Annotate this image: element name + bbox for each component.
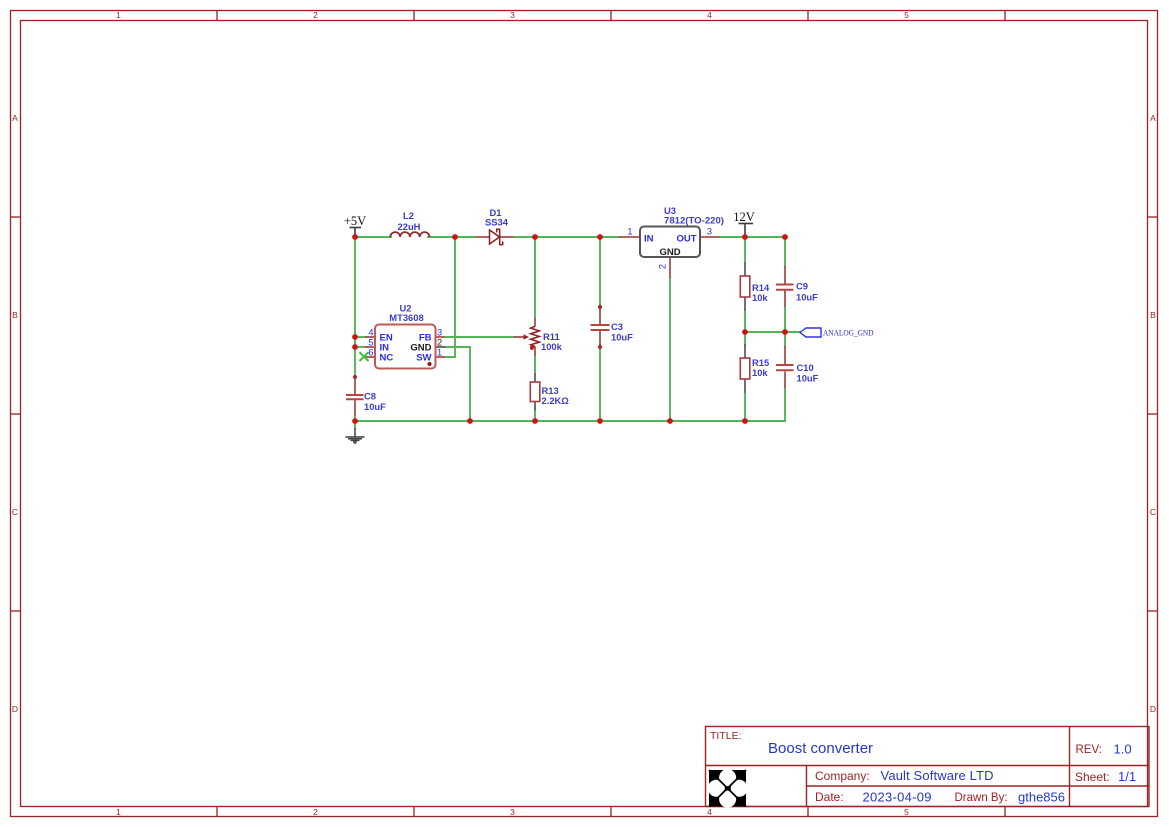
svg-text:2: 2 xyxy=(437,338,442,348)
svg-text:Company:: Company: xyxy=(815,769,870,783)
svg-text:L2: L2 xyxy=(403,210,414,221)
svg-text:NC: NC xyxy=(380,353,394,364)
svg-text:5: 5 xyxy=(368,338,373,348)
svg-text:OUT: OUT xyxy=(676,234,696,245)
svg-text:1: 1 xyxy=(437,348,442,358)
svg-text:C8: C8 xyxy=(364,391,376,402)
svg-text:Date:: Date: xyxy=(815,790,844,804)
svg-text:10k: 10k xyxy=(752,292,768,303)
svg-text:3: 3 xyxy=(707,227,712,237)
svg-text:B: B xyxy=(12,310,18,320)
svg-text:2023-04-09: 2023-04-09 xyxy=(863,790,932,805)
svg-text:Drawn By:: Drawn By: xyxy=(955,792,1008,804)
svg-text:A: A xyxy=(1150,113,1156,123)
svg-text:10uF: 10uF xyxy=(796,292,818,303)
svg-text:D: D xyxy=(1150,704,1156,714)
svg-text:4: 4 xyxy=(368,328,373,338)
svg-text:3: 3 xyxy=(437,328,442,338)
svg-text:5: 5 xyxy=(904,10,909,20)
svg-text:A: A xyxy=(12,113,18,123)
svg-text:gthe856: gthe856 xyxy=(1018,790,1065,805)
svg-text:10uF: 10uF xyxy=(797,373,819,384)
svg-text:10uF: 10uF xyxy=(364,401,386,412)
svg-text:IN: IN xyxy=(644,234,654,245)
svg-text:2: 2 xyxy=(313,10,318,20)
svg-text:Sheet:: Sheet: xyxy=(1075,770,1110,784)
svg-text:6: 6 xyxy=(368,348,373,358)
svg-text:TITLE:: TITLE: xyxy=(710,730,742,742)
svg-text:3: 3 xyxy=(510,10,515,20)
svg-text:C10: C10 xyxy=(797,362,814,373)
svg-text:2: 2 xyxy=(658,264,668,269)
svg-text:3: 3 xyxy=(510,807,515,817)
svg-text:B: B xyxy=(1150,310,1156,320)
svg-text:C9: C9 xyxy=(796,281,808,292)
svg-text:2.2KΩ: 2.2KΩ xyxy=(542,395,570,406)
svg-text:7812(TO-220): 7812(TO-220) xyxy=(664,215,724,226)
svg-text:MT3608: MT3608 xyxy=(389,312,423,323)
svg-text:C: C xyxy=(1150,507,1156,517)
svg-text:REV:: REV: xyxy=(1076,744,1102,756)
svg-text:12V: 12V xyxy=(733,210,755,224)
svg-text:5: 5 xyxy=(904,807,909,817)
svg-text:1.0: 1.0 xyxy=(1114,742,1132,757)
svg-text:100k: 100k xyxy=(541,341,563,352)
svg-text:Boost converter: Boost converter xyxy=(768,740,873,757)
svg-text:D: D xyxy=(12,704,18,714)
svg-text:4: 4 xyxy=(707,10,712,20)
svg-text:C3: C3 xyxy=(611,321,623,332)
svg-text:Vault Software LTD: Vault Software LTD xyxy=(881,768,994,783)
svg-text:+5V: +5V xyxy=(344,214,366,228)
svg-text:10k: 10k xyxy=(752,367,768,378)
svg-text:SS34: SS34 xyxy=(485,217,509,228)
svg-text:ANALOG_GND: ANALOG_GND xyxy=(823,328,874,338)
svg-text:1: 1 xyxy=(116,10,121,20)
svg-text:GND: GND xyxy=(659,247,680,258)
svg-text:1: 1 xyxy=(627,227,632,237)
svg-text:1: 1 xyxy=(116,807,121,817)
svg-text:1/1: 1/1 xyxy=(1118,769,1136,784)
svg-text:C: C xyxy=(12,507,18,517)
svg-text:4: 4 xyxy=(707,807,712,817)
svg-text:SW: SW xyxy=(416,353,431,364)
svg-text:10uF: 10uF xyxy=(611,332,633,343)
svg-text:2: 2 xyxy=(313,807,318,817)
svg-text:22uH: 22uH xyxy=(398,221,421,232)
